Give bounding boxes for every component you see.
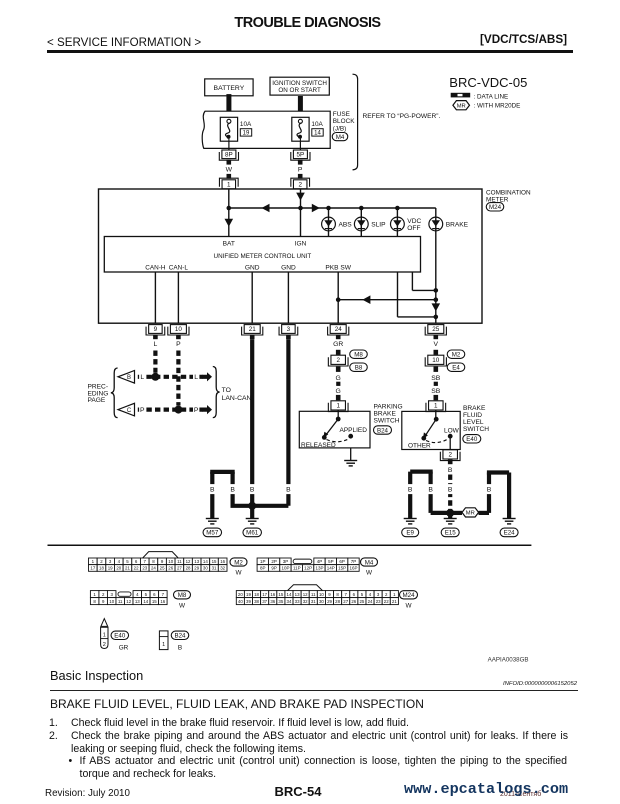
oval E40 grid <box>111 631 129 640</box>
svg-text:COMBINATION: COMBINATION <box>486 190 531 197</box>
GND pin label 3 <box>281 264 296 271</box>
junction CAN-L <box>174 406 182 414</box>
svg-text:MR: MR <box>466 511 475 517</box>
svg-text:W: W <box>366 570 373 577</box>
fuse 19 labels <box>240 121 252 137</box>
oval B24 switch <box>374 426 392 435</box>
svg-text:27: 27 <box>343 599 348 604</box>
connector 1 meter top <box>219 178 238 189</box>
svg-text:13: 13 <box>194 559 199 564</box>
data arrow right on bus <box>312 204 320 213</box>
svg-text:34: 34 <box>287 599 292 604</box>
stub above conn1 parking <box>336 395 341 400</box>
B label E9 inner wire <box>427 484 433 494</box>
data arrow down pin1 <box>225 219 234 227</box>
header left section label <box>47 36 201 49</box>
svg-text:LEVEL: LEVEL <box>463 419 484 426</box>
B label M57 inner wire <box>229 484 235 494</box>
svg-text:30: 30 <box>203 566 208 571</box>
svg-text:CAN-L: CAN-L <box>169 264 189 271</box>
connector M2 key tab <box>143 552 179 558</box>
svg-text:19: 19 <box>108 566 113 571</box>
stub below conn2 <box>336 367 341 372</box>
wire 8P to W <box>227 160 232 165</box>
wire W to conn 1 <box>227 174 232 179</box>
svg-text:29: 29 <box>194 566 199 571</box>
oval M4 grid <box>361 558 378 566</box>
svg-text:31: 31 <box>311 599 316 604</box>
wire color SB label lower <box>431 388 441 395</box>
wire color G label lower <box>336 388 341 395</box>
svg-text:B: B <box>178 645 182 652</box>
svg-text:5P: 5P <box>328 559 334 564</box>
stub V upper <box>434 350 439 355</box>
svg-text:BRC-VDC-05: BRC-VDC-05 <box>449 75 527 90</box>
svg-text:39: 39 <box>246 599 251 604</box>
svg-text:13: 13 <box>135 599 140 604</box>
svg-text:L: L <box>154 341 158 348</box>
svg-text:M61: M61 <box>246 530 259 537</box>
ground M57 <box>206 519 219 524</box>
ground E24 oval <box>500 528 518 537</box>
wire color B label fluid <box>448 467 453 474</box>
svg-text:10P: 10P <box>281 566 289 571</box>
ground M61 oval <box>243 528 262 537</box>
svg-text:B: B <box>286 487 291 494</box>
heading rule <box>50 690 578 691</box>
svg-text:PARKING: PARKING <box>374 404 403 411</box>
svg-text:10A: 10A <box>311 121 323 128</box>
svg-text:15: 15 <box>152 599 157 604</box>
meter connector oval M24 <box>486 203 504 212</box>
ground E15 oval <box>441 528 459 537</box>
section heading Basic Inspection <box>50 668 143 683</box>
E40 color GR <box>119 645 129 652</box>
svg-text:C: C <box>127 408 132 414</box>
svg-text:2: 2 <box>298 182 302 189</box>
connector 24 meter bottom <box>328 325 349 335</box>
svg-text:25: 25 <box>432 326 440 333</box>
svg-text:33: 33 <box>295 599 300 604</box>
svg-text:13: 13 <box>295 592 300 597</box>
svg-text:23: 23 <box>376 599 381 604</box>
unified meter control unit label <box>214 253 312 260</box>
svg-text:24: 24 <box>335 326 343 333</box>
fluid low contact <box>448 434 453 439</box>
svg-text:L: L <box>140 374 144 381</box>
diagram separator line <box>48 544 532 546</box>
svg-text:PAGE: PAGE <box>88 397 106 404</box>
svg-text:23: 23 <box>142 566 147 571</box>
junction pin2 bus <box>298 206 303 211</box>
svg-text:21: 21 <box>125 566 130 571</box>
off-page arrow B preceding <box>118 371 135 384</box>
RELEASED label <box>301 442 336 449</box>
svg-text:2P: 2P <box>271 559 277 564</box>
connector 3 meter bottom <box>279 325 298 335</box>
infoid <box>503 681 577 687</box>
fluid switch lever <box>423 419 436 439</box>
svg-text:16: 16 <box>160 599 165 604</box>
svg-text:10: 10 <box>175 326 183 333</box>
svg-text:REFER TO “PG-POWER”.: REFER TO “PG-POWER”. <box>363 113 441 120</box>
connector 1 brake fluid switch <box>426 401 446 412</box>
svg-text:BRAKE: BRAKE <box>446 221 469 228</box>
svg-text:B: B <box>448 487 453 494</box>
svg-text:19: 19 <box>246 592 251 597</box>
svg-text:P: P <box>176 341 181 348</box>
wire junction to MR <box>450 511 462 515</box>
wire color B label pin21 <box>250 341 255 348</box>
wire ignition to fuse block <box>298 96 303 117</box>
header right tag <box>480 33 567 46</box>
L label left <box>139 372 145 382</box>
data arrow left PKB <box>362 295 370 304</box>
svg-text:LOW: LOW <box>444 427 460 434</box>
data arrow down right vertical <box>432 303 441 311</box>
junction pin1 bus <box>227 206 232 211</box>
fluid other contact <box>421 436 426 441</box>
svg-text:AAPIA0038GB: AAPIA0038GB <box>488 657 529 664</box>
wire unified to right bus upper <box>412 272 435 290</box>
svg-text:18: 18 <box>254 592 259 597</box>
svg-text:17: 17 <box>262 592 267 597</box>
oval E4 <box>447 363 465 372</box>
svg-text:M24: M24 <box>402 592 415 599</box>
svg-text:20: 20 <box>116 566 121 571</box>
svg-text:ON OR START: ON OR START <box>278 87 321 94</box>
svg-text:31: 31 <box>212 566 217 571</box>
wire lamp ABS <box>328 208 330 237</box>
svg-text:3P: 3P <box>283 559 289 564</box>
wire pin1 BAT <box>228 189 230 237</box>
CAN-L horizontal dashed line <box>138 408 203 412</box>
stub above conn1 fluid <box>434 395 439 400</box>
svg-text:11: 11 <box>118 599 123 604</box>
B label E9 wire <box>407 484 413 494</box>
B24 color B <box>178 645 182 652</box>
wire fuse14 to 5P <box>299 141 301 150</box>
SB wire dash <box>434 382 438 386</box>
svg-text:W: W <box>179 603 186 610</box>
svg-text:28: 28 <box>186 566 191 571</box>
svg-text:M2: M2 <box>234 559 243 566</box>
wire B over E9 <box>410 472 450 518</box>
stub below pin 3 <box>286 335 291 340</box>
svg-text:TO: TO <box>222 387 231 394</box>
svg-text:12: 12 <box>126 599 131 604</box>
wire GND to pin3 <box>287 272 289 323</box>
wire GND to pin21 <box>251 272 253 323</box>
svg-text:VDC: VDC <box>407 218 421 225</box>
svg-text:14P: 14P <box>327 566 335 571</box>
parking applied contact <box>348 434 353 439</box>
oval E40 switch <box>463 435 481 444</box>
svg-text:M8: M8 <box>178 592 187 599</box>
svg-text:30: 30 <box>319 599 324 604</box>
svg-text:B: B <box>487 487 492 494</box>
wire lamp VDC OFF <box>396 208 398 237</box>
svg-text:BLOCK: BLOCK <box>333 118 355 125</box>
svg-text:28: 28 <box>335 599 340 604</box>
svg-text:16P: 16P <box>349 566 357 571</box>
connector 1 parking brake switch <box>328 401 348 412</box>
off-page arrow C preceding <box>118 403 135 416</box>
svg-text:15: 15 <box>212 559 217 564</box>
OTHER label <box>408 443 431 450</box>
svg-text:1: 1 <box>336 403 340 410</box>
junction E15 <box>446 509 454 517</box>
svg-text:GR: GR <box>119 645 129 652</box>
brake fluid switch labels <box>463 405 489 433</box>
wire B pin3 down <box>286 339 290 506</box>
CAN-H pin label <box>145 264 166 271</box>
svg-text:(J/B): (J/B) <box>333 125 347 132</box>
svg-text:22: 22 <box>384 599 389 604</box>
svg-text:17: 17 <box>90 566 95 571</box>
ground M61 <box>246 519 259 524</box>
wire color SB label upper <box>431 375 441 382</box>
svg-text:SWITCH: SWITCH <box>463 426 489 433</box>
svg-text:GND: GND <box>281 264 296 271</box>
svg-text:14: 14 <box>203 559 208 564</box>
left brace <box>111 368 118 418</box>
lamp BRAKE <box>429 217 469 231</box>
svg-text:E24: E24 <box>504 530 516 537</box>
M8 color W <box>179 603 186 610</box>
data arrow left on bus <box>262 204 270 213</box>
svg-text:IGN: IGN <box>295 240 307 247</box>
M4 color W <box>366 570 373 577</box>
svg-text:UNIFIED METER CONTROL UNIT: UNIFIED METER CONTROL UNIT <box>214 253 312 260</box>
connector 5P <box>291 150 310 160</box>
svg-text:9: 9 <box>154 326 158 333</box>
stub below pin 25 <box>434 335 439 340</box>
wire M61 stem <box>250 506 254 518</box>
footer <box>45 788 130 799</box>
ground E9 <box>404 519 417 524</box>
svg-text:SB: SB <box>431 375 441 382</box>
CAN-H horizontal dashed line <box>138 375 203 379</box>
fuse block labels <box>333 111 355 132</box>
svg-text:E40: E40 <box>114 633 126 640</box>
svg-text:32: 32 <box>220 566 225 571</box>
svg-text:1: 1 <box>103 633 106 639</box>
wire B horizontal to junction <box>231 504 289 508</box>
ground E9 oval <box>402 528 419 537</box>
data bus horizontal <box>229 207 436 209</box>
junction PKB <box>336 297 341 302</box>
svg-text:6P: 6P <box>339 559 345 564</box>
svg-text:M4: M4 <box>336 134 345 141</box>
svg-text:32: 32 <box>303 599 308 604</box>
connector 21 meter bottom <box>242 325 263 335</box>
diagram title BRC-VDC-05 <box>449 75 527 90</box>
svg-text:16: 16 <box>220 559 225 564</box>
lamp VDC OFF <box>391 217 422 232</box>
wire lamp SLIP <box>360 208 362 237</box>
wire color W label <box>226 167 233 174</box>
oval M24 grid <box>400 591 418 599</box>
svg-text:10: 10 <box>109 599 114 604</box>
svg-text:B24: B24 <box>377 427 389 434</box>
stub below pin 9 <box>153 335 158 340</box>
refer-to bracket <box>353 74 358 170</box>
wire MR to E24 <box>479 473 510 519</box>
B label E24 wire <box>486 484 492 494</box>
unified meter control unit box <box>104 237 420 273</box>
svg-text:B: B <box>230 487 235 494</box>
ignition switch box <box>270 77 329 95</box>
junction right vertical lower <box>434 315 439 320</box>
svg-text:: WITH MR20DE: : WITH MR20DE <box>474 103 521 110</box>
stub GR upper <box>336 350 341 355</box>
parking released contact <box>322 435 327 440</box>
GND pin label 21 <box>245 264 260 271</box>
junction right vertical upper <box>434 288 439 293</box>
svg-text:PKB SW: PKB SW <box>325 264 351 271</box>
svg-text:11: 11 <box>311 592 316 597</box>
parking switch lever <box>323 419 338 438</box>
oval M2 grid <box>230 558 247 566</box>
PKB SW pin label <box>325 264 351 271</box>
svg-text:ABS: ABS <box>339 221 353 228</box>
ground parking switch <box>344 461 357 466</box>
svg-text:GND: GND <box>245 264 260 271</box>
fluid switch arc <box>426 439 449 443</box>
svg-text:19: 19 <box>243 131 250 137</box>
svg-text:27: 27 <box>177 566 182 571</box>
svg-text:20: 20 <box>238 592 243 597</box>
svg-text:21: 21 <box>249 326 257 333</box>
parking brake switch labels <box>374 404 403 425</box>
svg-text:BRAKE: BRAKE <box>463 405 486 412</box>
svg-text:15: 15 <box>278 592 283 597</box>
svg-text:OTHER: OTHER <box>408 443 431 450</box>
svg-text:8P: 8P <box>225 151 233 158</box>
G wire dash <box>336 382 340 386</box>
svg-text:26: 26 <box>351 599 356 604</box>
fluid B dashed wire <box>448 475 452 513</box>
svg-text:W: W <box>405 603 412 610</box>
stub below pin 10 <box>176 335 181 340</box>
svg-text:B24: B24 <box>174 633 186 640</box>
junction right vertical mid <box>434 297 439 302</box>
svg-text:CAN-H: CAN-H <box>145 264 166 271</box>
IGN pin label <box>295 240 307 247</box>
brake fluid switch box <box>402 411 460 449</box>
stub below conn10 <box>434 367 439 372</box>
svg-text:22: 22 <box>134 566 139 571</box>
junction VDC OFF <box>395 206 400 211</box>
wire P to conn 2 <box>298 174 303 179</box>
combination meter box <box>99 189 483 323</box>
svg-text:APPLIED: APPLIED <box>340 427 368 434</box>
svg-text:25: 25 <box>359 599 364 604</box>
L label right <box>193 372 199 382</box>
CAN-L pin label <box>169 264 189 271</box>
ground E15 <box>444 519 457 524</box>
svg-text:B: B <box>408 487 413 494</box>
svg-text:37: 37 <box>262 599 267 604</box>
refer note <box>363 113 441 120</box>
figure id AAPIA0038GB <box>488 657 529 664</box>
svg-text:B: B <box>428 487 433 494</box>
svg-text:SWITCH: SWITCH <box>374 418 400 425</box>
svg-text:E15: E15 <box>445 530 457 537</box>
svg-text:SB: SB <box>431 388 441 395</box>
svg-text:G: G <box>336 375 341 382</box>
svg-text:FUSE: FUSE <box>333 111 350 118</box>
svg-text:M4: M4 <box>365 559 374 566</box>
ground E24 <box>503 519 516 524</box>
junction M61 <box>248 502 256 510</box>
svg-text:L: L <box>194 374 198 381</box>
svg-text:36: 36 <box>270 599 275 604</box>
wire CAN-H to pin9 <box>154 272 156 323</box>
svg-text:12: 12 <box>186 559 191 564</box>
fuse block J/B box <box>202 111 330 148</box>
to LAN arrow CAN-L <box>203 405 213 414</box>
svg-text:2: 2 <box>336 357 340 364</box>
connector M24 key tab <box>288 585 323 591</box>
svg-text:E9: E9 <box>406 530 414 537</box>
to LAN arrow CAN-H <box>203 372 213 381</box>
wire B pin21 down <box>250 339 254 506</box>
connector 8P <box>219 150 238 160</box>
connector E40 shape <box>101 619 108 649</box>
svg-text:M24: M24 <box>489 204 502 211</box>
fuse 14 labels <box>311 121 323 137</box>
svg-text:G: G <box>336 388 341 395</box>
svg-text:M57: M57 <box>206 530 219 537</box>
svg-text:B: B <box>210 487 215 494</box>
svg-text:11P: 11P <box>293 566 301 571</box>
body list <box>49 717 58 729</box>
svg-text:35: 35 <box>278 599 283 604</box>
svg-text:LAN-CAN: LAN-CAN <box>222 395 252 402</box>
connector 25 meter bottom <box>425 325 446 335</box>
page header title <box>0 15 615 31</box>
svg-text:11: 11 <box>177 559 182 564</box>
P label right <box>193 404 199 414</box>
oval M8 grid <box>174 591 191 599</box>
svg-text:1: 1 <box>434 403 438 410</box>
CAN-H dashed wire from pin9 <box>153 351 157 373</box>
svg-text:38: 38 <box>254 599 259 604</box>
lamp ABS <box>322 217 353 231</box>
B label M61 wire <box>249 484 255 494</box>
parking switch ground wire <box>350 448 352 461</box>
wire PKB SW to pin24 <box>337 272 339 323</box>
svg-text:M2: M2 <box>452 352 461 359</box>
stub below pin 24 <box>336 335 341 340</box>
junction ABS <box>326 206 331 211</box>
M2 color W <box>235 570 242 577</box>
svg-text:GR: GR <box>333 341 343 348</box>
svg-text:15P: 15P <box>338 566 346 571</box>
svg-text:4P: 4P <box>317 559 323 564</box>
svg-text:9P: 9P <box>271 566 277 571</box>
wire color V label <box>434 341 439 348</box>
wire color G label upper <box>336 375 341 382</box>
svg-text:12P: 12P <box>304 566 312 571</box>
svg-text:14: 14 <box>287 592 292 597</box>
svg-text:2: 2 <box>448 452 452 459</box>
svg-text:: DATA LINE: : DATA LINE <box>474 93 509 100</box>
svg-text:IGNITION SWITCH: IGNITION SWITCH <box>272 80 327 87</box>
sub heading <box>50 697 424 711</box>
